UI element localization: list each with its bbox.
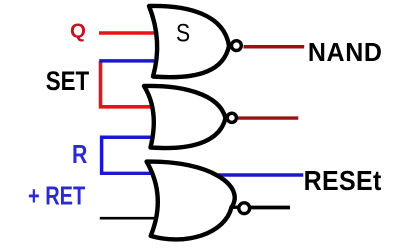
svg-text:+ RET: + RET bbox=[28, 181, 85, 210]
wire: SET net (red) vertical drop and feed to middle gate upper input bbox=[101, 61, 153, 107]
NOR gate U3 (bottom) bbox=[147, 162, 235, 240]
svg-text:SET: SET bbox=[46, 66, 89, 97]
svg-text:Q: Q bbox=[70, 19, 86, 42]
svg-text:R: R bbox=[72, 140, 87, 170]
NOR gate U1 (top, S) bbox=[149, 6, 229, 77]
wire: middle gate output (dark red) bbox=[238, 116, 298, 119]
NOR gate U2 (middle) bbox=[144, 86, 226, 148]
wire: RESET output (blue) from bottom gate top arc to label bbox=[218, 173, 303, 176]
wire: bottom gate output (black) bbox=[250, 206, 290, 210]
bubble U2 output bbox=[227, 113, 236, 122]
wire: stub from bottom gate tip to bubble (black) bbox=[230, 205, 239, 208]
bubble U3 output bbox=[239, 203, 250, 214]
wire: NAND output (dark red) bbox=[244, 45, 305, 49]
wire: Q input (red) bbox=[99, 31, 154, 35]
wire: bottom gate lower input (black) bbox=[100, 217, 154, 220]
svg-text:S: S bbox=[176, 19, 190, 47]
bubble U1 output bbox=[232, 41, 242, 51]
wire: R net (blue) feed to middle gate lower input and vertical drop bbox=[102, 137, 153, 173]
wire: blue to top gate lower input bbox=[99, 59, 154, 63]
svg-text:RESEt: RESEt bbox=[304, 165, 382, 196]
svg-text:NAND: NAND bbox=[308, 38, 383, 67]
wire: blue into bottom gate upper input bbox=[100, 172, 153, 175]
